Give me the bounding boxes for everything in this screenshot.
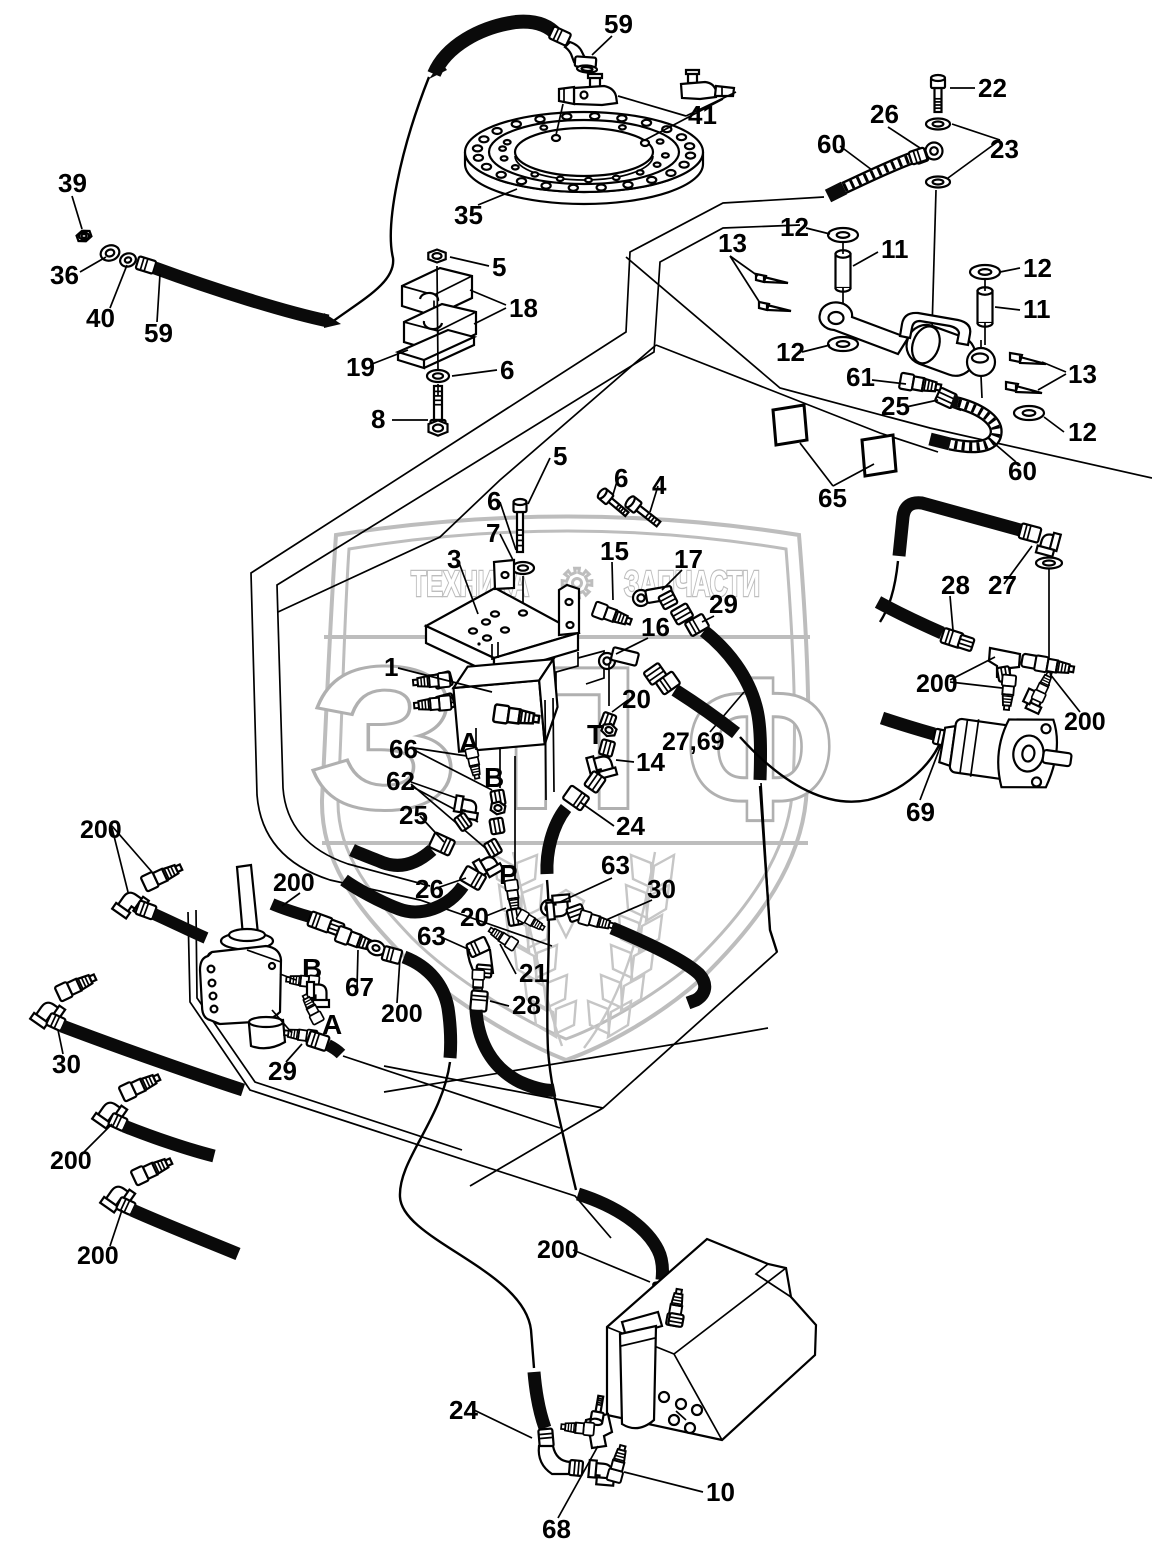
svg-text:59: 59: [144, 318, 173, 348]
fitting 28 left collar: [470, 990, 488, 1011]
leader 65 b: [833, 464, 874, 486]
leader 200 lt a: [112, 826, 152, 872]
fitting P union: [504, 879, 521, 913]
leader 5 clamp: [450, 257, 489, 266]
washer 23 lower: [926, 177, 950, 188]
hose 24 lower: [534, 1372, 545, 1428]
plate 3 right tab: [559, 585, 579, 635]
leader 200 pl b: [950, 682, 1002, 688]
watermark band line top: [324, 635, 810, 639]
hose A short: [328, 1045, 341, 1054]
svg-text:3: 3: [447, 544, 461, 574]
leader 29 left: [286, 1044, 302, 1062]
hose 59 thin mid section: [332, 77, 429, 322]
line block to T: [608, 664, 610, 706]
leader 65 a: [800, 443, 833, 486]
svg-text:200: 200: [77, 1242, 119, 1270]
fitting washer after 67: [365, 938, 387, 957]
link arm body: [820, 302, 908, 354]
hose 59 lower segment: [155, 268, 328, 321]
leader 41 a: [686, 92, 736, 116]
leader 11 a: [853, 252, 878, 266]
leader 23 b: [948, 140, 1000, 178]
tank holes: [659, 1392, 669, 1402]
elbow fitting 41 left: [590, 77, 600, 88]
svg-text:13: 13: [718, 228, 747, 258]
filter body: [620, 1326, 656, 1428]
elbow P chain upper: [484, 838, 503, 857]
bolt 22: [931, 75, 945, 112]
leader 36: [80, 257, 106, 272]
slewing ring 35 bore: [515, 128, 653, 176]
svg-text:11: 11: [1023, 294, 1051, 324]
leader 41 b: [618, 96, 686, 116]
hose 24 short: [547, 808, 566, 874]
leader 13 rb: [1038, 374, 1066, 390]
leader 200 pl a: [950, 657, 995, 680]
hose 60 upper end fitting: [908, 147, 927, 164]
lower deck V lines: [470, 783, 777, 1186]
hose 59 end fitting: [549, 26, 572, 46]
pins 13 left pair: [756, 274, 788, 283]
pins 13 right pair: [1010, 353, 1046, 364]
leader 28 left: [490, 1001, 509, 1006]
leader 24 top: [580, 802, 614, 826]
block 1 top studs: [492, 642, 498, 660]
hose 28 curving right: [476, 1010, 555, 1090]
nipple P to eye: [516, 909, 546, 933]
hose 69 lower: [882, 718, 934, 734]
elbow below A: [453, 795, 480, 820]
leader 12 a: [806, 228, 830, 234]
fitting B nut: [490, 789, 505, 806]
svg-text:8: 8: [371, 404, 385, 434]
hose 200 mid: [272, 904, 310, 917]
svg-text:17: 17: [674, 544, 703, 574]
leader 22: [950, 87, 975, 89]
svg-text:20: 20: [460, 902, 489, 932]
leader 67: [357, 950, 358, 988]
elbow small right: [1021, 689, 1046, 714]
svg-text:15: 15: [600, 536, 629, 566]
washer 23 upper: [926, 119, 950, 130]
line valve to B: [280, 974, 296, 980]
hose 59 upper taper: [429, 62, 447, 79]
leader 30 left: [58, 1030, 63, 1054]
line 41 left to ring: [556, 104, 563, 135]
tank top fitting: [666, 1288, 687, 1327]
tank hose end collar: [653, 1281, 669, 1299]
hose 59 lower taper: [324, 313, 341, 328]
steering valve rod: [237, 865, 258, 936]
leader 61: [872, 380, 906, 384]
watermark shield inner border: [338, 531, 795, 1039]
hose 27 end fitting: [1018, 523, 1041, 543]
plate 3 left flange: [426, 626, 494, 675]
hose 29-27-69 long: [704, 631, 761, 780]
slewing ring 35 outer wall: [465, 152, 703, 204]
svg-text:12: 12: [1023, 253, 1052, 283]
pin 11 b: [978, 287, 993, 327]
slewing ring 35 top face: [465, 112, 703, 192]
hose 24 thin to 200: [547, 880, 576, 1190]
collar 200d: [381, 946, 402, 964]
slewing ring 35 outer bolt holes: [686, 153, 695, 159]
svg-text:61: 61: [846, 362, 875, 392]
leader 60 upper: [840, 146, 872, 170]
svg-text:69: 69: [906, 797, 935, 827]
fitting 63 right elbow: [541, 900, 557, 916]
svg-text:26: 26: [870, 99, 899, 129]
fitting B washer: [489, 817, 504, 834]
block 1 left plugs: [433, 671, 453, 689]
tee fitting 200: [989, 648, 1020, 679]
hose 27 upper: [899, 503, 1020, 556]
steering valve lower cyl: [249, 1020, 285, 1048]
bolt axis line 22: [932, 190, 936, 330]
fitting 21 nipple: [487, 924, 519, 951]
watermark wheat left: [494, 852, 674, 1048]
watermark center emblem: [548, 890, 584, 937]
hose 30: [612, 928, 705, 1003]
svg-text:25: 25: [399, 800, 428, 830]
leader 11 b: [995, 307, 1020, 310]
svg-text:24: 24: [616, 811, 645, 841]
hose 69 thin continuation: [740, 737, 941, 802]
link arm axis a: [842, 241, 844, 318]
nipple right of tee: [1021, 654, 1041, 670]
fitting 61: [899, 373, 942, 396]
nipple 200 row1: [54, 970, 98, 1002]
fitting 24 nut: [584, 771, 606, 794]
machine deck outline upper pair B: [277, 225, 800, 886]
leader 15: [612, 562, 613, 600]
bolt 4 small right: [624, 495, 663, 529]
elbow 200 row3: [100, 1180, 135, 1216]
svg-text:6: 6: [487, 486, 501, 516]
svg-text:60: 60: [1008, 456, 1037, 486]
svg-text:10: 10: [706, 1477, 735, 1507]
plate 3 holes: [491, 611, 499, 616]
leader 63 left: [441, 937, 470, 950]
svg-text:6: 6: [614, 463, 628, 493]
leader 16: [616, 638, 648, 654]
leader 59 top: [592, 36, 612, 55]
hose 200 left short: [154, 914, 206, 938]
svg-text:28: 28: [512, 990, 541, 1020]
mounting plate 3: [426, 588, 578, 658]
leader 30 right: [606, 900, 652, 920]
valve block 1: [452, 659, 561, 752]
leader 200 mid: [282, 893, 300, 906]
link arm axis b: [984, 278, 986, 345]
leader 35: [478, 189, 517, 205]
plate 3 front flange: [494, 633, 578, 675]
leader 62 c: [411, 786, 478, 822]
leader 6 right: [612, 478, 618, 498]
hose 16-69: [675, 690, 736, 733]
leader 63 right: [560, 878, 612, 902]
elbow 27 flange: [1036, 530, 1061, 558]
svg-text:59: 59: [604, 9, 633, 39]
leader 40: [110, 265, 127, 308]
fitting 200 upper elbow: [112, 886, 149, 923]
hose 24 lower end elbow: [538, 1428, 554, 1447]
washer 12 d: [1014, 406, 1044, 420]
leader 10: [624, 1472, 703, 1492]
svg-text:12: 12: [780, 212, 809, 242]
svg-text:67: 67: [345, 972, 374, 1002]
fitting 14 elbow: [599, 739, 615, 757]
watermark gear icon: [562, 568, 592, 598]
leader to tank holes: [676, 1411, 686, 1420]
svg-text:22: 22: [978, 73, 1007, 103]
deck edge to lower right: [626, 257, 1152, 478]
filter cap: [622, 1312, 662, 1336]
leader 12 b: [1000, 268, 1020, 272]
leader 23 a: [952, 124, 1000, 140]
hose 30 left long: [62, 1026, 243, 1090]
svg-text:12: 12: [776, 337, 805, 367]
leader 19: [372, 350, 408, 364]
leader 1: [398, 668, 492, 692]
svg-text:12: 12: [1068, 417, 1097, 447]
plate 3 left tab: [494, 560, 514, 589]
clamp plate 19: [398, 330, 474, 368]
clamp half 18 lower: [404, 304, 476, 352]
fitting 20 nut lower: [507, 908, 524, 926]
leader 13 la: [730, 256, 758, 276]
svg-text:27: 27: [988, 570, 1017, 600]
svg-text:1: 1: [384, 652, 398, 682]
washer 12 b: [970, 265, 1000, 279]
fitting 25 collar left: [429, 832, 456, 856]
leader 20 T: [612, 700, 628, 712]
hose 200d vertical: [404, 957, 451, 1058]
leader 200 pr: [1050, 674, 1080, 712]
leader 4: [650, 486, 658, 512]
machine deck outline upper pair A: [251, 197, 824, 946]
elbow 200 row2: [92, 1096, 127, 1132]
leader 62 b: [411, 784, 490, 852]
hose 28 end fitting: [940, 628, 964, 648]
svg-text:200: 200: [916, 670, 958, 698]
leader 13 ra: [1042, 362, 1066, 372]
svg-text:21: 21: [519, 958, 548, 988]
hose 59 lower segment left fittings: [76, 228, 93, 243]
slewing ring 35 bore wall: [515, 156, 653, 180]
hose 28 diagonal: [878, 602, 942, 633]
fitting 28 threads: [471, 970, 484, 1001]
leader 62 a: [411, 782, 462, 800]
banjo eye 26 fitting: [926, 143, 943, 160]
fitting 67 nipple: [334, 926, 378, 955]
svg-text:19: 19: [346, 352, 375, 382]
leader 18 b: [474, 308, 506, 324]
hose A thin line: [343, 1056, 560, 1128]
svg-text:63: 63: [417, 921, 446, 951]
bolt 5 centre: [514, 499, 527, 552]
svg-text:11: 11: [881, 234, 909, 264]
lower deck V line second: [384, 1066, 603, 1108]
lower deck edge short: [196, 910, 462, 1150]
svg-text:200: 200: [1064, 708, 1106, 736]
hose 200d thin S to 24: [400, 1062, 534, 1368]
svg-text:13: 13: [1068, 359, 1097, 389]
leader 60 lower: [988, 438, 1016, 462]
leader 8: [392, 419, 428, 421]
hose 25: [352, 850, 432, 865]
leader 5 centre: [528, 458, 550, 504]
elbow 200 row1: [30, 996, 65, 1032]
leader 25 right: [906, 400, 938, 407]
leader 59 lower: [157, 274, 160, 322]
steering valve flange: [221, 933, 273, 950]
fitting 25 right: [935, 387, 958, 408]
leader 25 left: [420, 816, 444, 842]
hose 200 to tank: [578, 1194, 663, 1280]
leader 200 row2: [84, 1124, 112, 1152]
leader 21: [500, 944, 516, 974]
union below tee: [1000, 674, 1017, 710]
leader 66 b: [414, 750, 492, 790]
leader 200 row3: [110, 1210, 122, 1246]
washer 6 clamp: [427, 370, 449, 382]
fitting 16 collar: [643, 663, 666, 686]
fitting 24 collar: [562, 785, 589, 811]
pin 11 a: [836, 250, 851, 292]
clamp half 18 upper: [402, 268, 472, 316]
plate 3 bracket arm: [540, 652, 578, 692]
deck apex edge right: [656, 345, 938, 452]
svg-text:25: 25: [881, 391, 910, 421]
svg-text:7: 7: [486, 518, 500, 548]
leader 39: [72, 196, 82, 229]
link cylinder body: [901, 320, 980, 382]
svg-text:18: 18: [509, 293, 538, 323]
leader 6 centre: [500, 502, 516, 550]
lower deck diagonal pair: [384, 1028, 768, 1092]
svg-text:200: 200: [381, 1000, 423, 1028]
leader 27,69: [710, 692, 744, 732]
decal square 65 right: [862, 435, 896, 476]
svg-text:39: 39: [58, 168, 87, 198]
link lever handle: [900, 313, 970, 345]
svg-text:30: 30: [52, 1049, 81, 1079]
leader 14: [616, 760, 634, 762]
leader 20 P: [486, 908, 506, 916]
watermark letters ZPF: [310, 627, 834, 861]
deck apex edge left: [278, 345, 656, 612]
washer 7: [512, 562, 534, 574]
gear pump: [937, 705, 1076, 796]
fitting couplers mid: [307, 911, 333, 933]
svg-text:20: 20: [622, 684, 651, 714]
hose 200 row2: [124, 1126, 214, 1156]
fitting B left elbow: [286, 973, 320, 989]
line bolt to plate: [522, 576, 524, 611]
nut 5 clamp: [428, 250, 445, 263]
watermark wheat right: [584, 852, 655, 1048]
slewing ring 35 inner bolt holes: [662, 153, 669, 157]
leader 26 left: [437, 878, 466, 888]
tank elbow 200: [642, 1300, 667, 1324]
hose 59 upper segment: [434, 22, 557, 74]
hose 200 row3: [132, 1210, 238, 1254]
svg-text:16: 16: [641, 612, 670, 642]
line valve to A: [272, 1010, 292, 1033]
hose 59 end hex nut: [575, 56, 597, 67]
fitting 15 nipple: [592, 601, 634, 629]
svg-text:60: 60: [817, 129, 846, 159]
lower deck edge long: [188, 912, 611, 1238]
tank block: [607, 1239, 816, 1440]
leader 13 lb: [730, 256, 760, 303]
hose 29 thin continuation: [760, 786, 777, 952]
leader 66 a: [414, 748, 467, 756]
leader 29 top: [702, 616, 714, 622]
leader 12 c: [802, 345, 830, 352]
svg-text:28: 28: [941, 570, 970, 600]
leader 28 right: [950, 596, 953, 630]
fitting 30 nipple: [578, 910, 615, 933]
hose 59 hose-end fitting: [135, 256, 156, 274]
leader 17: [662, 570, 682, 590]
fitting 63 left elbow: [467, 947, 493, 976]
bolt 6 small right: [596, 487, 631, 519]
hose 60 lower ribbed: [952, 401, 963, 405]
block 1 right stud: [493, 704, 540, 728]
svg-text:14: 14: [636, 747, 665, 777]
link ball end: [967, 348, 995, 376]
hose 26: [344, 880, 463, 912]
steering valve body: [206, 946, 281, 1024]
svg-text:62: 62: [386, 766, 415, 796]
leader 24 bottom: [474, 1410, 532, 1438]
svg-text:68: 68: [542, 1514, 571, 1544]
fitting 17 elbow: [633, 590, 649, 606]
fitting A stud: [465, 747, 483, 780]
leader 200 lt b: [112, 828, 128, 892]
hose 69 end fitting: [933, 729, 956, 748]
svg-text:5: 5: [492, 252, 506, 282]
decal square 65 left: [773, 405, 807, 445]
fitting 20 union T port: [599, 712, 616, 731]
line 41 right to ring: [645, 99, 723, 140]
svg-text:200: 200: [273, 869, 315, 897]
steering valve ports: [208, 966, 215, 973]
watermark shield outer border: [322, 517, 810, 1061]
elbow fitting 41 right: [688, 73, 697, 83]
svg-text:65: 65: [818, 483, 847, 513]
svg-text:5: 5: [553, 441, 567, 471]
clamp centre line: [437, 266, 438, 396]
svg-text:63: 63: [601, 850, 630, 880]
bolt 8: [431, 386, 446, 433]
svg-text:200: 200: [537, 1236, 579, 1264]
svg-text:29: 29: [268, 1056, 297, 1086]
fitting 26 collar: [459, 866, 486, 891]
svg-text:27,69: 27,69: [662, 728, 725, 756]
fitting 68 tee: [584, 1414, 612, 1448]
nipple 200 row2: [118, 1070, 162, 1102]
washer 12 a: [828, 228, 858, 242]
svg-text:36: 36: [50, 260, 79, 290]
leader 200 tank: [573, 1250, 650, 1282]
nipple 200 row3: [130, 1154, 174, 1186]
slewing ring 35 mid ellipse: [489, 120, 679, 184]
leader 26 upper: [888, 127, 920, 148]
